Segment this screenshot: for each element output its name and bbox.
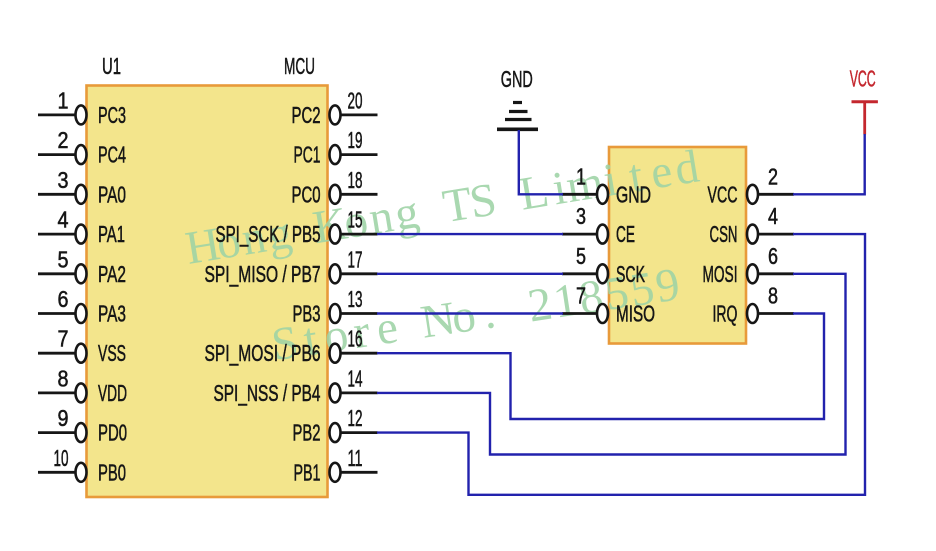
svg-text:19: 19: [348, 127, 363, 153]
svg-text:2: 2: [768, 163, 778, 189]
wire PB4 to MOSI: [377, 274, 846, 455]
svg-text:4: 4: [768, 203, 778, 229]
svg-text:MOSI: MOSI: [703, 261, 738, 287]
svg-text:PB1: PB1: [294, 459, 321, 485]
module pin 1 (GND): [562, 163, 651, 207]
svg-text:PB3: PB3: [293, 301, 321, 327]
svg-text:18: 18: [348, 167, 363, 193]
U1 pin 5 (PA2): [38, 246, 126, 287]
svg-text:PA3: PA3: [98, 301, 126, 327]
svg-text:12: 12: [348, 405, 363, 431]
MCU U1 body: [87, 86, 328, 498]
module pin 3 (CE): [562, 203, 635, 247]
svg-text:CE: CE: [616, 221, 635, 247]
svg-text:PC2: PC2: [292, 102, 321, 128]
svg-text:1: 1: [58, 87, 69, 113]
svg-text:7: 7: [576, 283, 586, 309]
svg-text:PA1: PA1: [98, 221, 125, 247]
ground symbol GND: [497, 66, 538, 129]
svg-text:SPI_MISO / PB7: SPI_MISO / PB7: [205, 261, 321, 287]
module pin 5 (SCK): [562, 243, 645, 287]
wire PB3 to MISO: [377, 312, 563, 314]
svg-text:PB0: PB0: [98, 459, 126, 485]
svg-text:7: 7: [58, 326, 69, 352]
U1 pin 19 (PC1): [294, 127, 378, 168]
RF module body: [609, 147, 746, 344]
svg-text:5: 5: [58, 246, 69, 272]
U1 pin 15 (SPI_SCK / PB5): [216, 207, 378, 248]
U1 pin 6 (PA3): [38, 286, 126, 327]
svg-text:PA2: PA2: [98, 261, 126, 287]
U1 pin 10 (PB0): [38, 445, 126, 486]
svg-text:PC0: PC0: [292, 181, 321, 207]
svg-text:1: 1: [576, 163, 586, 189]
svg-text:PB2: PB2: [293, 420, 321, 446]
U1 pin 4 (PA1): [38, 207, 125, 248]
svg-text:GND: GND: [501, 66, 533, 92]
svg-text:8: 8: [768, 283, 778, 309]
svg-text:11: 11: [348, 445, 363, 471]
svg-text:PA0: PA0: [98, 181, 126, 207]
U1 pin 3 (PA0): [38, 167, 126, 208]
module pin 7 (MISO): [562, 283, 655, 327]
wire PB6 to IRQ: [377, 314, 824, 420]
wire VCC to module pin 2: [793, 134, 865, 194]
svg-text:GND: GND: [616, 181, 651, 207]
wire PB2 to CSN: [377, 234, 865, 495]
svg-text:SPI_SCK / PB5: SPI_SCK / PB5: [216, 221, 321, 247]
svg-text:CSN: CSN: [710, 221, 738, 247]
module pin 8 (IRQ): [713, 283, 795, 327]
svg-text:5: 5: [576, 243, 586, 269]
svg-text:VDD: VDD: [98, 380, 127, 406]
wire PB7 to SCK: [377, 273, 563, 275]
svg-text:8: 8: [58, 365, 69, 391]
U1 pin 2 (PC4): [38, 127, 126, 168]
svg-text:15: 15: [348, 207, 363, 233]
svg-text:20: 20: [348, 87, 363, 113]
svg-text:SCK: SCK: [616, 261, 645, 287]
svg-text:MISO: MISO: [616, 301, 655, 327]
U1 pin 20 (PC2): [292, 87, 378, 128]
svg-text:10: 10: [54, 445, 69, 471]
U1 pin 7 (VSS): [38, 326, 126, 367]
svg-text:4: 4: [58, 207, 69, 233]
svg-text:U1: U1: [102, 53, 121, 79]
svg-text:16: 16: [348, 326, 363, 352]
svg-text:13: 13: [348, 286, 363, 312]
svg-text:SPI_MOSI / PB6: SPI_MOSI / PB6: [205, 340, 321, 366]
svg-text:3: 3: [576, 203, 586, 229]
U1 pin 9 (PD0): [38, 405, 127, 446]
U1 pin 14 (SPI_NSS / PB4): [214, 365, 378, 406]
svg-text:MCU: MCU: [284, 53, 315, 79]
module pin 4 (CSN): [710, 203, 795, 247]
svg-text:2: 2: [58, 127, 69, 153]
svg-text:6: 6: [58, 286, 69, 312]
U1 pin 12 (PB2): [293, 405, 378, 446]
svg-text:17: 17: [348, 246, 363, 272]
U1 pin 18 (PC0): [292, 167, 378, 208]
svg-text:PC4: PC4: [98, 142, 126, 168]
power symbol VCC: [850, 66, 878, 135]
module pin 2 (VCC): [708, 163, 795, 207]
module pin 6 (MOSI): [703, 243, 795, 287]
svg-text:SPI_NSS / PB4: SPI_NSS / PB4: [214, 380, 321, 406]
U1 pin 16 (SPI_MOSI / PB6): [205, 326, 378, 367]
svg-text:VSS: VSS: [98, 340, 126, 366]
svg-text:PD0: PD0: [98, 420, 127, 446]
U1 pin 11 (PB1): [294, 445, 378, 486]
svg-text:9: 9: [58, 405, 69, 431]
svg-text:3: 3: [58, 167, 69, 193]
svg-text:14: 14: [348, 365, 363, 391]
svg-text:IRQ: IRQ: [713, 301, 738, 327]
wire GND to module pin 1: [519, 130, 563, 194]
U1 pin 8 (VDD): [38, 365, 127, 406]
U1 pin 13 (PB3): [293, 286, 378, 327]
U1 pin 17 (SPI_MISO / PB7): [205, 246, 378, 287]
svg-text:6: 6: [768, 243, 778, 269]
svg-text:PC1: PC1: [294, 142, 321, 168]
wire PB5 to CE: [377, 233, 563, 235]
svg-text:PC3: PC3: [98, 102, 126, 128]
U1 pin 1 (PC3): [38, 87, 126, 128]
svg-text:VCC: VCC: [708, 181, 738, 207]
svg-text:VCC: VCC: [850, 66, 876, 92]
